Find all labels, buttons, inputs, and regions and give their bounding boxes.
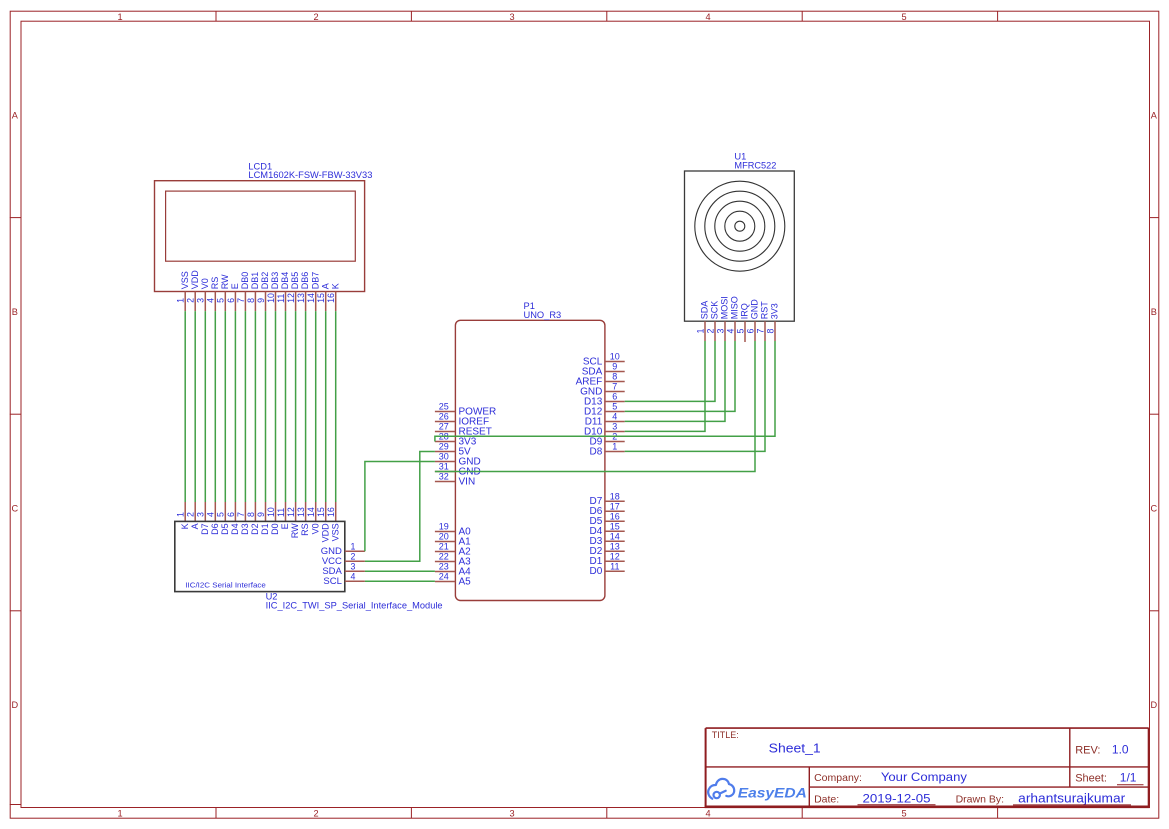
svg-text:32: 32 [439,472,449,482]
svg-text:V0: V0 [310,523,320,534]
svg-text:D4: D4 [230,523,240,535]
svg-text:SCL: SCL [323,576,341,587]
svg-text:D: D [1150,700,1157,710]
svg-text:A: A [1151,110,1158,120]
svg-text:B: B [1151,307,1157,317]
svg-text:26: 26 [439,412,449,422]
svg-text:MISO: MISO [730,296,740,319]
svg-text:V0: V0 [200,278,210,289]
svg-text:7: 7 [612,382,617,392]
svg-text:10: 10 [610,352,620,362]
svg-text:A: A [190,523,200,529]
svg-text:14: 14 [306,507,316,517]
svg-text:RS: RS [210,277,220,290]
svg-text:TITLE:: TITLE: [712,730,739,740]
svg-text:4: 4 [206,298,216,303]
svg-text:8: 8 [246,512,256,517]
svg-text:DB4: DB4 [280,272,290,290]
svg-text:21: 21 [439,542,449,552]
svg-text:7: 7 [755,329,765,334]
svg-text:EasyEDA: EasyEDA [738,786,807,802]
svg-text:3: 3 [196,512,206,517]
svg-text:VDD: VDD [320,523,330,543]
svg-text:MOSI: MOSI [720,296,730,319]
svg-text:3: 3 [350,561,355,571]
svg-text:SCK: SCK [710,301,720,320]
svg-text:9: 9 [256,512,266,517]
svg-text:18: 18 [610,491,620,501]
svg-text:RS: RS [300,523,310,536]
svg-text:D6: D6 [210,523,220,535]
svg-text:23: 23 [439,562,449,572]
svg-text:Drawn By:: Drawn By: [956,793,1004,805]
svg-text:arhantsurajkumar: arhantsurajkumar [1018,792,1125,806]
svg-text:13: 13 [610,541,620,551]
svg-text:4: 4 [705,808,710,818]
svg-text:15: 15 [316,507,326,517]
svg-text:2019-12-05: 2019-12-05 [863,792,931,806]
svg-text:D7: D7 [200,523,210,535]
svg-text:RST: RST [760,301,770,320]
svg-text:D5: D5 [220,523,230,535]
svg-text:15: 15 [610,521,620,531]
svg-text:DB1: DB1 [250,272,260,290]
svg-text:27: 27 [439,422,449,432]
svg-text:1/1: 1/1 [1120,771,1137,785]
svg-text:2: 2 [350,551,355,561]
svg-text:DB5: DB5 [290,272,300,290]
svg-text:25: 25 [439,402,449,412]
svg-text:6: 6 [745,329,755,334]
svg-text:24: 24 [439,572,449,582]
svg-text:11: 11 [610,561,619,571]
svg-text:3: 3 [196,298,206,303]
svg-text:12: 12 [286,293,296,303]
svg-text:IIC/I2C Serial Interface: IIC/I2C Serial Interface [185,581,265,590]
svg-text:D2: D2 [250,523,260,535]
svg-text:Sheet:: Sheet: [1075,773,1107,785]
svg-text:2: 2 [705,329,715,334]
svg-text:A: A [12,110,19,120]
svg-text:13: 13 [296,507,306,517]
svg-text:1: 1 [117,808,122,818]
svg-text:10: 10 [266,507,276,517]
svg-text:4: 4 [705,12,710,22]
svg-text:VSS: VSS [180,271,190,289]
svg-text:1: 1 [695,329,705,334]
svg-text:DB7: DB7 [310,272,320,290]
svg-text:6: 6 [226,298,236,303]
svg-text:Date:: Date: [814,793,839,805]
svg-text:30: 30 [439,452,449,462]
svg-text:6: 6 [226,512,236,517]
svg-text:1: 1 [176,512,186,517]
svg-text:5: 5 [735,329,745,334]
svg-text:3: 3 [715,329,725,334]
svg-text:8: 8 [765,329,775,334]
svg-text:1: 1 [350,541,355,551]
svg-text:16: 16 [326,507,336,517]
svg-text:8: 8 [612,372,617,382]
svg-text:2: 2 [313,808,318,818]
svg-text:19: 19 [439,522,449,532]
svg-text:6: 6 [612,392,617,402]
svg-text:5: 5 [901,808,906,818]
svg-text:4: 4 [725,329,735,334]
svg-text:12: 12 [610,551,620,561]
svg-text:E: E [280,523,290,529]
svg-text:3V3: 3V3 [770,303,780,319]
svg-text:11: 11 [276,294,286,303]
svg-text:REV:: REV: [1075,745,1100,757]
svg-text:D0: D0 [590,566,603,577]
svg-text:8: 8 [246,298,256,303]
svg-text:VSS: VSS [330,523,340,541]
svg-text:UNO_R3: UNO_R3 [524,310,562,320]
svg-text:5: 5 [216,512,226,517]
svg-text:IRQ: IRQ [740,303,750,319]
svg-text:12: 12 [286,507,296,517]
svg-text:GND: GND [750,299,760,320]
svg-text:C: C [1150,503,1157,513]
svg-text:Sheet_1: Sheet_1 [769,741,821,756]
svg-text:1.0: 1.0 [1112,743,1129,757]
svg-text:2: 2 [186,512,196,517]
svg-text:D: D [11,700,18,710]
svg-text:9: 9 [256,298,266,303]
svg-text:DB6: DB6 [300,272,310,290]
svg-text:1: 1 [612,442,617,452]
svg-text:VIN: VIN [459,476,476,487]
svg-text:9: 9 [612,362,617,372]
svg-text:MFRC522: MFRC522 [734,160,776,170]
svg-text:1: 1 [117,12,122,22]
svg-text:D8: D8 [590,446,603,457]
svg-text:2: 2 [313,12,318,22]
svg-text:17: 17 [610,501,620,511]
svg-text:4: 4 [350,571,355,581]
svg-text:14: 14 [306,293,316,303]
svg-text:RW: RW [220,274,230,289]
svg-text:K: K [330,283,340,289]
svg-text:16: 16 [326,293,336,303]
svg-text:3: 3 [509,12,514,22]
svg-text:A5: A5 [459,576,472,587]
svg-text:10: 10 [266,293,276,303]
svg-text:5: 5 [216,298,226,303]
svg-text:4: 4 [206,512,216,517]
svg-text:IIC_I2C_TWI_SP_Serial_Interfac: IIC_I2C_TWI_SP_Serial_Interface_Module [266,601,443,611]
svg-text:D1: D1 [260,523,270,535]
svg-text:D0: D0 [270,523,280,535]
svg-text:3: 3 [612,422,617,432]
svg-text:D3: D3 [240,523,250,535]
svg-text:7: 7 [236,298,246,303]
svg-text:SDA: SDA [700,301,710,320]
svg-text:E: E [230,283,240,289]
svg-text:VDD: VDD [190,270,200,290]
svg-text:14: 14 [610,531,620,541]
svg-text:Company:: Company: [814,772,862,784]
svg-text:31: 31 [439,462,449,472]
svg-text:RW: RW [290,523,300,538]
svg-text:5: 5 [612,402,617,412]
svg-text:DB0: DB0 [240,272,250,290]
svg-text:22: 22 [439,552,449,562]
svg-text:B: B [12,307,18,317]
svg-text:LCM1602K-FSW-FBW-33V33: LCM1602K-FSW-FBW-33V33 [248,170,372,180]
svg-text:15: 15 [316,293,326,303]
svg-text:DB3: DB3 [270,272,280,290]
svg-text:7: 7 [236,512,246,517]
svg-text:16: 16 [610,511,620,521]
svg-text:2: 2 [186,298,196,303]
svg-text:A: A [320,283,330,289]
svg-text:DB2: DB2 [260,272,270,290]
svg-text:11: 11 [276,508,286,517]
svg-text:4: 4 [612,412,617,422]
svg-text:20: 20 [439,532,449,542]
svg-text:13: 13 [296,293,306,303]
svg-text:29: 29 [439,442,449,452]
svg-text:1: 1 [176,298,186,303]
svg-text:5: 5 [901,12,906,22]
svg-text:Your Company: Your Company [881,772,967,784]
svg-text:C: C [11,503,18,513]
svg-text:3: 3 [509,808,514,818]
svg-text:K: K [180,523,190,529]
